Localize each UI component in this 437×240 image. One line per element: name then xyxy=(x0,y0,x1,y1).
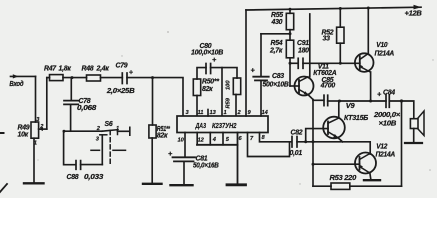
svg-text:К237УН2: К237УН2 xyxy=(212,121,237,130)
resistor R52 33 xyxy=(322,7,345,65)
svg-text:0,01: 0,01 xyxy=(290,150,303,157)
ground C81 end bar xyxy=(171,184,193,186)
supply rail +12В xyxy=(246,5,422,18)
svg-text:2,4к: 2,4к xyxy=(96,66,110,73)
op-amp IC DA3 К237УН2 xyxy=(177,116,268,133)
svg-text:7: 7 xyxy=(250,136,254,142)
svg-text:С88: С88 xyxy=(67,174,79,181)
ground speaker xyxy=(405,142,422,144)
svg-text:V12: V12 xyxy=(376,144,387,151)
edge artifact left xyxy=(0,132,4,134)
svg-text:9: 9 xyxy=(248,110,252,116)
svg-text:3: 3 xyxy=(96,136,100,142)
svg-text:1: 1 xyxy=(116,126,119,132)
transistor V10 П214А xyxy=(355,7,394,102)
paper speckles xyxy=(37,31,433,185)
pin 12 stub xyxy=(196,133,198,145)
capacitor C91 180 xyxy=(290,40,360,68)
wire input down to R49 xyxy=(35,76,37,122)
resistor R51 82к xyxy=(149,78,170,183)
speaker B1 xyxy=(389,101,424,142)
wire pin 9 riser xyxy=(245,10,247,116)
transistor V9 КТ315Б xyxy=(323,101,368,142)
capacitor C85 4700 xyxy=(313,77,340,106)
pin stubs top xyxy=(207,110,209,117)
svg-text:4: 4 xyxy=(212,137,217,143)
resistor R48 2,4к xyxy=(82,66,110,81)
resistor R47 1,8к xyxy=(44,65,71,80)
svg-text:С78: С78 xyxy=(79,98,91,105)
svg-text:R54: R54 xyxy=(271,40,283,47)
svg-text:430: 430 xyxy=(271,19,283,26)
wire pin 8 elbow xyxy=(260,133,292,142)
resistor R54 2,7к xyxy=(269,40,294,86)
capacitor C84 2000,0x10В xyxy=(373,90,400,128)
svg-text:П214А: П214А xyxy=(375,51,395,58)
svg-text:180: 180 xyxy=(298,47,309,54)
svg-text:10к: 10к xyxy=(18,132,29,139)
wire down to C88 xyxy=(64,131,76,165)
svg-text:2,7к: 2,7к xyxy=(269,47,283,54)
svg-text:КТ315Б: КТ315Б xyxy=(344,115,368,122)
svg-text:500×10В: 500×10В xyxy=(263,82,289,89)
svg-text:3: 3 xyxy=(186,110,190,116)
svg-text:0,068: 0,068 xyxy=(77,105,96,112)
svg-text:+12В: +12В xyxy=(405,11,422,18)
svg-text:V10: V10 xyxy=(376,42,387,49)
resistor R55 430 xyxy=(271,8,294,40)
svg-text:×10В: ×10В xyxy=(379,121,397,128)
capacitor C79 2,0x25В xyxy=(106,63,135,95)
pin numbers bottom xyxy=(178,135,266,143)
capacitor C81 50,0x16В xyxy=(168,133,219,185)
svg-text:С79: С79 xyxy=(116,63,128,70)
svg-text:100,0×10В: 100,0×10В xyxy=(191,49,223,56)
svg-text:П214А: П214А xyxy=(376,151,396,158)
wire lower bus from C78 xyxy=(64,130,102,132)
input terminal Вход xyxy=(9,74,35,88)
svg-text:ДА3: ДА3 xyxy=(195,121,206,130)
wire pin 7 feedback loop xyxy=(248,133,290,157)
svg-text:1: 1 xyxy=(224,110,227,116)
resistor R50 82к xyxy=(193,79,219,116)
svg-text:4700: 4700 xyxy=(320,83,336,90)
svg-text:С84: С84 xyxy=(383,90,395,97)
svg-text:R55: R55 xyxy=(271,12,283,19)
wire output mid rail xyxy=(297,142,370,154)
svg-text:50,0×16В: 50,0×16В xyxy=(193,163,219,170)
svg-text:R47: R47 xyxy=(44,65,57,72)
wire R47 to R48 xyxy=(63,77,87,79)
svg-text:V9: V9 xyxy=(346,103,355,110)
svg-text:82к: 82к xyxy=(157,133,168,140)
switch S6 xyxy=(91,121,130,165)
svg-text:100: 100 xyxy=(226,80,232,90)
svg-text:6: 6 xyxy=(239,136,243,142)
svg-text:11: 11 xyxy=(198,110,204,116)
svg-text:R48: R48 xyxy=(82,66,94,73)
svg-text:8: 8 xyxy=(262,135,266,141)
transistor V12 П214А xyxy=(313,144,395,180)
svg-text:14: 14 xyxy=(262,110,269,116)
wire C83 to R55/R54 node xyxy=(261,33,290,35)
svg-text:Вход: Вход xyxy=(9,80,24,88)
ground V12 xyxy=(364,179,380,181)
wire V11 emitter down rail xyxy=(312,100,314,187)
node junction C78 xyxy=(71,76,74,79)
capacitor C80 100,0x10В xyxy=(191,43,237,116)
wire output top node xyxy=(340,100,387,102)
node junction R51 xyxy=(151,76,154,79)
svg-text:+: + xyxy=(129,67,134,76)
svg-text:2: 2 xyxy=(237,110,242,116)
ground chip xyxy=(227,183,246,186)
wire C79 to corner pin3 xyxy=(127,78,183,116)
resistor R59 100 (vertical label) xyxy=(226,78,241,116)
wire C88 up to switch contact 3 xyxy=(101,135,103,164)
svg-text:+: + xyxy=(212,55,217,64)
wire R49 bottom xyxy=(33,138,35,182)
wire pins 4,5 bus to pin 6 ground xyxy=(209,133,211,145)
ground R51 xyxy=(143,183,162,185)
capacitor C88 0,033 xyxy=(67,161,104,181)
svg-text:+: + xyxy=(251,66,256,75)
wire output right drop xyxy=(401,101,403,186)
svg-text:R59: R59 xyxy=(226,97,232,108)
ground R49 xyxy=(24,182,44,184)
svg-text:2,0×25В: 2,0×25В xyxy=(106,88,135,95)
svg-text:С82: С82 xyxy=(291,129,303,136)
wire V9 base riser xyxy=(306,129,328,142)
svg-text:2000,0×: 2000,0× xyxy=(373,112,400,119)
svg-text:S6: S6 xyxy=(105,121,113,128)
svg-text:С83: С83 xyxy=(272,73,284,80)
svg-text:82к: 82к xyxy=(202,86,213,93)
svg-text:1,8к: 1,8к xyxy=(59,65,72,72)
potentiometer R49 10к xyxy=(18,117,47,146)
capacitor C78 0,068 xyxy=(64,78,96,132)
svg-text:12: 12 xyxy=(198,138,205,144)
capacitor C83 500x10В xyxy=(251,34,289,116)
transistor V11 КТ602А xyxy=(290,14,337,100)
capacitor C82 0,01 xyxy=(290,129,303,157)
svg-text:R53 220: R53 220 xyxy=(330,175,357,182)
svg-text:+: + xyxy=(377,90,382,99)
svg-text:3: 3 xyxy=(36,117,40,123)
resistor R53 220 xyxy=(330,175,357,189)
svg-text:10: 10 xyxy=(178,138,185,144)
svg-text:13: 13 xyxy=(210,110,217,116)
wire R48 to C79 xyxy=(101,77,123,79)
svg-text:С91: С91 xyxy=(297,40,309,47)
svg-text:R50**: R50** xyxy=(202,79,219,86)
pin numbers top xyxy=(186,110,269,116)
svg-text:R49: R49 xyxy=(18,124,30,131)
wire wiper riser xyxy=(46,78,48,130)
svg-text:0,033: 0,033 xyxy=(84,174,103,181)
wire bottom feedback xyxy=(313,185,331,187)
svg-text:33: 33 xyxy=(323,36,331,43)
svg-text:5: 5 xyxy=(226,137,230,143)
svg-text:+: + xyxy=(168,149,173,158)
